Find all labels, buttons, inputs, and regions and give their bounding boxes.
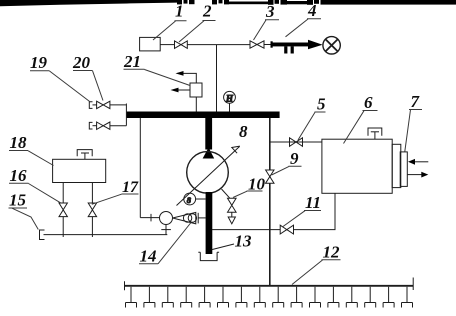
sump 13 container	[198, 252, 219, 260]
valve 20 bowtie top stub	[97, 101, 110, 108]
tank 6 drain pipe	[212, 193, 335, 229]
top cropped text band left	[0, 0, 177, 6]
svg-text:8: 8	[239, 122, 248, 141]
wire valve2 to valve3	[187, 44, 250, 46]
leader 7	[405, 110, 422, 152]
svg-text:4: 4	[307, 1, 317, 20]
pump P8 circle	[187, 152, 229, 194]
svg-text:9: 9	[290, 149, 299, 168]
wire stub header vertical	[125, 104, 127, 126]
leader 9	[272, 166, 302, 175]
wire top stub	[93, 104, 97, 106]
svg-text:2: 2	[202, 1, 212, 20]
wire bottom stub	[93, 125, 97, 127]
leader 6	[344, 111, 378, 144]
pump variable arrow to label 8	[177, 147, 240, 206]
svg-text:6: 6	[364, 93, 373, 112]
valve 17 vertical bowtie	[88, 203, 96, 217]
valve 11 bowtie	[280, 225, 293, 234]
svg-text:21: 21	[123, 52, 141, 71]
pipe tank18 left	[62, 183, 64, 204]
svg-text:18: 18	[10, 133, 28, 152]
svg-text:17: 17	[122, 179, 139, 196]
svg-text:20: 20	[72, 53, 91, 72]
svg-text:19: 19	[30, 53, 48, 72]
pipe tank18 right	[91, 183, 93, 204]
heater 7 bracket rect	[392, 144, 401, 187]
hand pump 14 circle	[160, 212, 173, 225]
leader 5	[298, 112, 326, 140]
leader 3	[254, 20, 280, 40]
valve 5 bowtie	[290, 138, 303, 147]
leader 11	[283, 211, 321, 227]
strainer below hand pump	[165, 225, 167, 235]
valve 9 vertical bowtie	[266, 170, 274, 183]
label leaders	[9, 19, 423, 285]
top cropped text band teeth over label 3	[268, 0, 287, 5]
top cropped text band teeth over label 1	[177, 0, 195, 4]
wire vertical drop from top pipe to manifold	[216, 45, 218, 112]
leader 18	[9, 151, 54, 166]
top cropped text band right	[327, 0, 456, 5]
wire relief valve to manifold	[195, 97, 197, 112]
leader 2	[179, 21, 216, 43]
pipe 12 right end tick	[412, 278, 414, 291]
heater 7 outlet arrow	[408, 174, 422, 176]
leader 10	[233, 191, 263, 198]
tank 6 breather	[368, 128, 382, 136]
pipe 12 left end tick	[124, 281, 126, 290]
svg-text:8: 8	[187, 195, 192, 205]
leader 20	[73, 71, 103, 101]
junction tick	[150, 214, 152, 222]
svg-text:11: 11	[305, 193, 321, 212]
fan symbol circle with X	[323, 37, 340, 54]
ejector cone	[173, 212, 196, 223]
manifold thick bar	[126, 112, 279, 119]
wire manometer to manifold	[229, 103, 231, 111]
burner 4 start cap	[271, 41, 273, 47]
svg-text:1: 1	[175, 2, 184, 21]
top cropped text band segment	[229, 2, 268, 5]
relief valve 21 square	[190, 83, 202, 97]
valve 10 drain arrow	[231, 212, 233, 217]
svg-text:12: 12	[323, 243, 341, 262]
leader 16	[9, 183, 61, 203]
heater 7 inlet arrow	[413, 161, 428, 163]
wire tank1 to valve2	[160, 44, 174, 46]
valve V2 bowtie	[175, 41, 188, 49]
svg-text:15: 15	[9, 191, 27, 210]
valve bowtie bottom stub	[97, 122, 110, 129]
sprinkler drops	[126, 287, 413, 308]
leader 14	[139, 223, 191, 264]
svg-text:10: 10	[248, 175, 266, 194]
tank 1 (fuel tank rectangle)	[140, 37, 161, 51]
leader 19	[30, 71, 90, 102]
valve V3 bowtie	[250, 41, 264, 48]
relief valve 21 top pilot line with arrow	[178, 73, 197, 83]
svg-text:13: 13	[235, 232, 253, 251]
wire ejector to riser	[198, 217, 205, 219]
manometer H circle	[224, 91, 236, 103]
top cropped text band teeth over label 4	[307, 0, 327, 5]
burner 4 tick marks	[284, 46, 287, 53]
tank 18 breather	[77, 150, 92, 157]
leader 17	[92, 194, 139, 204]
svg-text:5: 5	[317, 95, 326, 114]
suction line	[44, 234, 168, 236]
heater 7 core rect	[400, 152, 407, 187]
tank 6 rectangle	[322, 139, 392, 193]
burner 4 thick arrow body	[271, 43, 309, 47]
leader 13	[212, 244, 234, 250]
pump riser thick bar lower	[206, 192, 213, 254]
coupling C-end bottom stub	[89, 122, 92, 129]
leader 15	[9, 208, 39, 230]
gauge B circle	[184, 193, 196, 205]
wire to hand pump	[140, 217, 159, 219]
top cropped text band teeth over label 2	[212, 0, 229, 4]
coupling 15 C-end	[40, 230, 45, 240]
distribution pipe 12	[125, 285, 414, 287]
wire pump to valve10	[222, 189, 230, 198]
leader 12	[292, 260, 341, 285]
main distribution vertical wire	[269, 118, 271, 286]
pump riser thick bar upper	[205, 118, 212, 150]
svg-text:3: 3	[265, 2, 275, 21]
leader 21	[124, 69, 191, 85]
wire gauge to riser	[196, 198, 206, 200]
coupling 19 C-end top	[89, 102, 92, 109]
valve 16 vertical bowtie	[59, 203, 67, 217]
svg-text:16: 16	[10, 166, 28, 185]
wire to tank 6	[270, 141, 322, 143]
leader 4	[286, 19, 322, 37]
top cropped text band segment	[287, 1, 307, 4]
svg-text:14: 14	[140, 247, 157, 266]
relief valve 21 side pilot line with arrow	[178, 89, 190, 91]
hand pump feed vertical wire	[139, 118, 141, 218]
leader 1	[153, 21, 187, 40]
wire valve3 to burner 4	[264, 44, 271, 46]
tank 18 rectangle	[53, 159, 106, 182]
pump P8 flow triangle	[203, 148, 215, 159]
valve 10 drain bowtie	[228, 198, 237, 212]
svg-text:H: H	[225, 94, 234, 104]
burner 4 arrowhead	[308, 40, 323, 50]
